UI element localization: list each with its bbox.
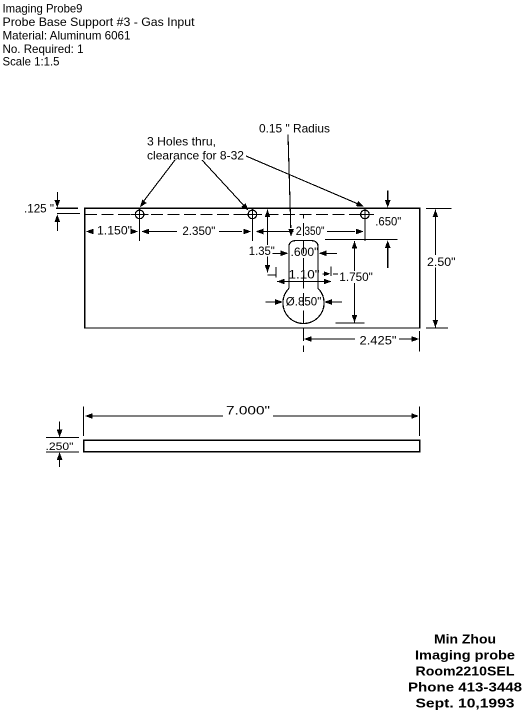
dim 2.425 extension line (419, 331, 421, 352)
hole H2 circle (248, 210, 257, 219)
dim 7.000 extension lines (83, 407, 85, 437)
dim 7.000 line and arrows (85, 413, 93, 419)
svg-text:.125 ": .125 " (24, 202, 54, 216)
svg-text:0.15 " Radius: 0.15 " Radius (259, 122, 330, 136)
dim 2.50 line and arrows (434, 210, 436, 328)
svg-text:1.150": 1.150" (97, 224, 132, 238)
hole H2 cross lines (243, 213, 261, 215)
dim 1.750 text (338, 271, 374, 283)
hole H3 cross lines (356, 213, 374, 215)
dim 2.350 second (256, 229, 264, 235)
svg-text:3 Holes thru,: 3 Holes thru, (147, 135, 216, 149)
svg-text:2: 2 (296, 224, 302, 238)
svg-text:clearance for 8-32: clearance for 8-32 (147, 149, 244, 163)
svg-text:Material: Aluminum 6061: Material: Aluminum 6061 (3, 29, 131, 43)
svg-text:Phone 413-3448: Phone 413-3448 (408, 680, 522, 695)
reference line right of slot (323, 273, 325, 275)
svg-text:Imaging Probe9: Imaging Probe9 (3, 2, 83, 16)
dim 1.35 line and arrows (267, 210, 269, 273)
plate outline front view (85, 208, 420, 328)
svg-text:350": 350" (305, 224, 325, 238)
svg-text:.600": .600" (291, 245, 319, 259)
svg-text:Min Zhou: Min Zhou (434, 632, 496, 647)
dim 1.10 extension ticks (275, 267, 277, 278)
hole H3 circle (361, 210, 370, 219)
leader to hole H1 (142, 160, 176, 204)
leader to hole H3 (246, 156, 357, 204)
svg-text:Scale 1:1.5: Scale 1:1.5 (3, 55, 60, 69)
svg-text:Imaging probe: Imaging probe (415, 648, 515, 663)
plate side view outline (84, 440, 420, 452)
svg-text:1.750": 1.750" (339, 270, 373, 284)
svg-text:1.10": 1.10" (289, 268, 320, 282)
svg-text:1.35": 1.35" (249, 244, 275, 258)
svg-text:Room2210SEL: Room2210SEL (416, 664, 515, 679)
dim 2.425 line and arrows (304, 336, 312, 342)
dim 2.350 first (141, 229, 149, 235)
dim .125 extension lines (56, 207, 78, 209)
svg-text:2.50": 2.50" (427, 255, 456, 269)
dim 1.750 line and arrows (354, 241, 356, 323)
dim .600 arrows (273, 252, 283, 254)
radius leader (288, 135, 291, 229)
keyhole slot with 0.15 radius corners and 0.850 circle (289, 241, 318, 289)
dim .650 extension line (325, 239, 397, 241)
svg-text:2.425": 2.425" (360, 334, 397, 348)
svg-text:Ø.850": Ø.850" (286, 295, 322, 309)
dim .650 arrows (387, 191, 389, 202)
svg-text:7.000": 7.000" (226, 404, 270, 418)
svg-text:Sept. 10,1993: Sept. 10,1993 (416, 696, 515, 711)
svg-text:.250": .250" (46, 441, 74, 453)
svg-text:2.350": 2.350" (182, 224, 215, 238)
svg-text:.650": .650" (375, 215, 401, 229)
hole H1 circle (135, 210, 144, 219)
dim .250 extension lines (46, 437, 79, 439)
dim 2.50 extension lines (426, 207, 452, 209)
leader to hole H2 (202, 160, 245, 206)
dim dia .850 arrows (266, 301, 277, 303)
dim 1.10 line and arrows (277, 281, 331, 283)
horizontal centerline (85, 213, 373, 215)
dim 2.50 text (426, 255, 457, 268)
svg-text:Probe Base Support #3 - Gas I: Probe Base Support #3 - Gas Input (3, 15, 196, 29)
hole H1 cross lines (131, 213, 149, 215)
slot centerline (302, 215, 304, 353)
dim .125 arrows (56, 192, 58, 201)
dim 1.150 (86, 229, 94, 235)
dim 1.35 text (248, 245, 277, 257)
dim .250 arrows (59, 422, 61, 432)
